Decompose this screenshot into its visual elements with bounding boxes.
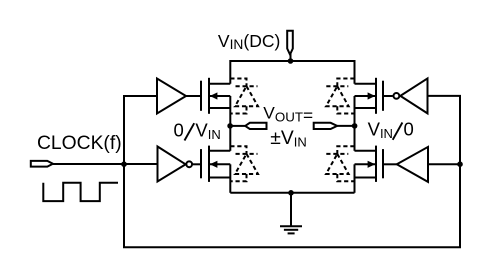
svg-text:CLOCK(f): CLOCK(f) (37, 133, 122, 154)
svg-text:VIN(DC): VIN(DC) (218, 31, 280, 52)
svg-text:0: 0 (174, 120, 184, 141)
svg-text:0: 0 (404, 119, 414, 140)
